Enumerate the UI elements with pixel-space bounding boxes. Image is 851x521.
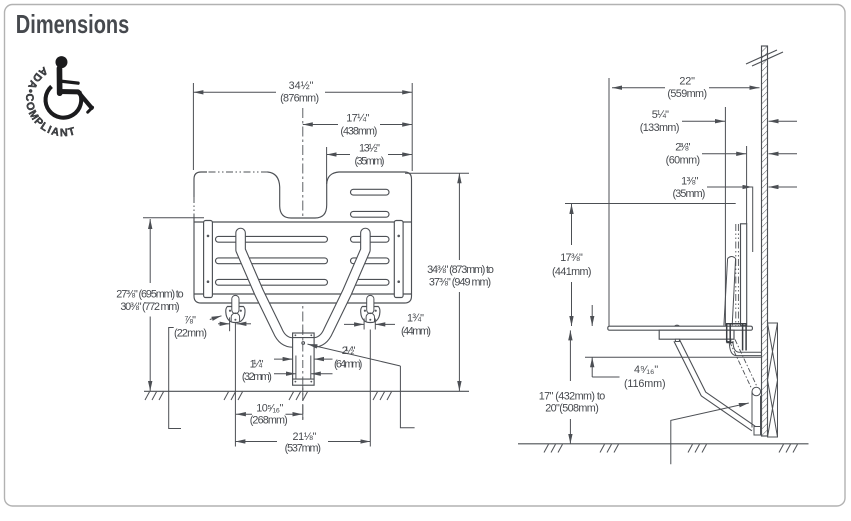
svg-text:(876mm): (876mm) <box>280 93 319 105</box>
svg-text:(441mm): (441mm) <box>552 266 592 278</box>
svg-text:21⅛": 21⅛" <box>293 431 317 443</box>
svg-text:Dimensions: Dimensions <box>16 9 130 39</box>
svg-text:22": 22" <box>679 75 695 87</box>
svg-text:27⅜" (695mm) to: 27⅜" (695mm) to <box>116 289 183 301</box>
svg-text:34⅜" (873mm) to: 34⅜" (873mm) to <box>427 264 494 276</box>
svg-text:10⁵⁄₁₆": 10⁵⁄₁₆" <box>256 402 283 414</box>
svg-text:1⅜": 1⅜" <box>681 175 698 187</box>
svg-text:(116mm): (116mm) <box>624 378 666 390</box>
svg-text:(35mm): (35mm) <box>355 155 385 167</box>
svg-text:37⅜" (949 mm): 37⅜" (949 mm) <box>429 277 491 289</box>
svg-text:(60mm): (60mm) <box>666 155 701 167</box>
svg-text:⅞": ⅞" <box>184 314 196 326</box>
svg-text:20"(508mm): 20"(508mm) <box>545 403 599 415</box>
svg-text:34½": 34½" <box>289 80 314 92</box>
svg-text:1¾": 1¾" <box>407 312 424 324</box>
svg-text:(64mm): (64mm) <box>334 359 362 371</box>
svg-text:(22mm): (22mm) <box>174 327 207 339</box>
svg-text:13½": 13½" <box>359 143 380 155</box>
svg-text:17¼": 17¼" <box>346 113 369 125</box>
svg-text:(268mm): (268mm) <box>250 414 288 426</box>
svg-text:2⅜": 2⅜" <box>675 142 690 154</box>
svg-text:(438mm): (438mm) <box>340 125 377 137</box>
svg-text:4⁹⁄₁₆": 4⁹⁄₁₆" <box>634 364 658 376</box>
svg-text:(559mm): (559mm) <box>667 88 707 100</box>
svg-text:1¼": 1¼" <box>250 358 264 370</box>
svg-text:5¼": 5¼" <box>652 109 669 121</box>
svg-text:17" (432mm) to: 17" (432mm) to <box>539 390 606 402</box>
svg-text:(537mm): (537mm) <box>285 443 321 455</box>
svg-text:(44mm): (44mm) <box>401 326 431 338</box>
svg-text:(133mm): (133mm) <box>640 122 680 134</box>
svg-text:(35mm): (35mm) <box>673 188 706 200</box>
svg-text:(32mm): (32mm) <box>242 371 272 383</box>
svg-text:2½": 2½" <box>342 345 356 357</box>
svg-text:30⅜" (772 mm): 30⅜" (772 mm) <box>120 301 179 313</box>
svg-text:17⅜": 17⅜" <box>560 252 583 264</box>
